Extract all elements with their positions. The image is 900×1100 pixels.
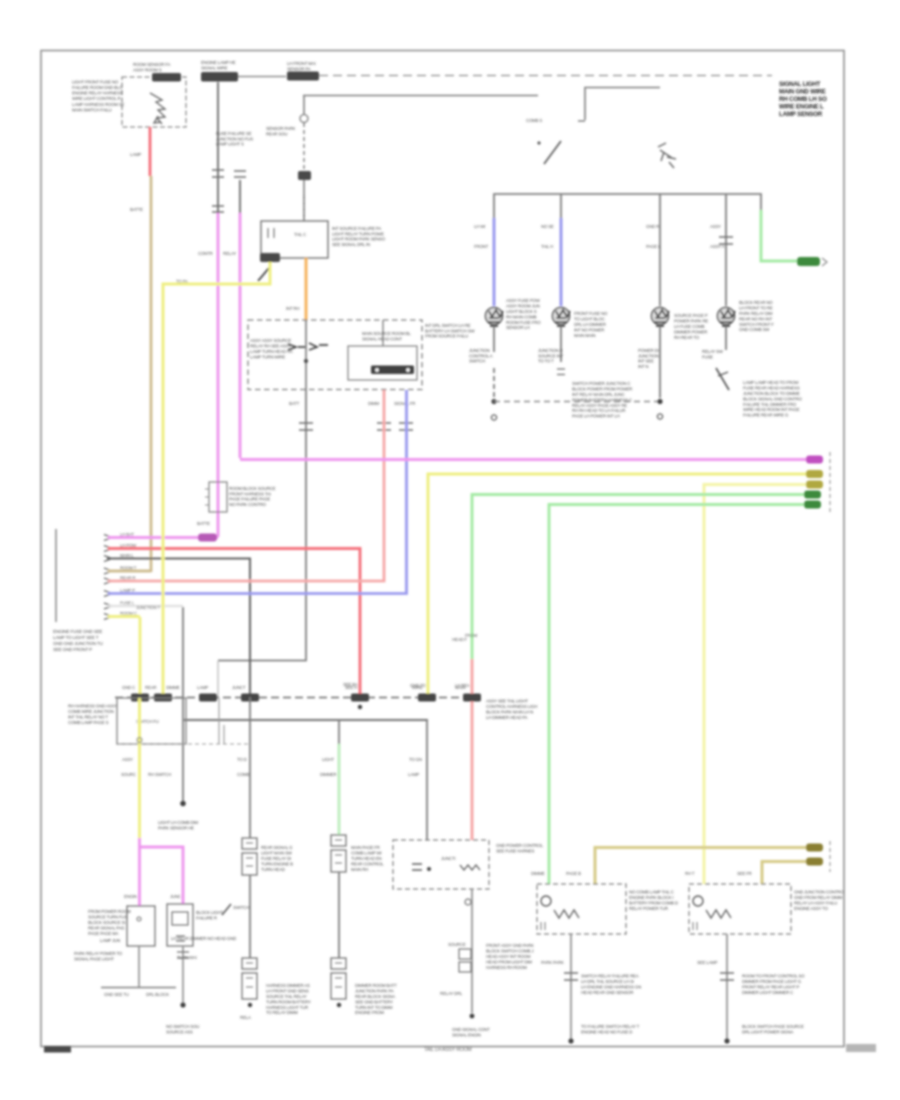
wire from fuse line <box>303 95 538 97</box>
svg-text:ASSY ASSY SOURCE: ASSY ASSY SOURCE <box>250 338 291 343</box>
left component box <box>127 906 155 946</box>
svg-text:SWITCH: SWITCH <box>469 359 485 364</box>
svg-text:LAMP TO LIGHT SEE T: LAMP TO LIGHT SEE T <box>53 635 99 640</box>
svg-text:RH RH HEAD TO LH FAILUR: RH RH HEAD TO LH FAILUR <box>572 408 625 413</box>
svg-text:RH SWITCH: RH SWITCH <box>148 772 171 777</box>
svg-text:BLOCK LIGHT: BLOCK LIGHT <box>196 910 223 915</box>
wire green x339 from bus2 <box>338 720 340 744</box>
svg-text:MAIN: MAIN <box>455 685 465 690</box>
svg-text:ENGINE FROM: ENGINE FROM <box>355 1010 384 1015</box>
svg-text:HARNESS DIMMER AS: HARNESS DIMMER AS <box>266 983 310 988</box>
col3 wire lower <box>659 333 661 398</box>
svg-text:JUNCTION BLOCK TO DIMME: JUNCTION BLOCK TO DIMME <box>743 391 800 396</box>
wire pink row <box>108 536 218 539</box>
svg-text:DIMMER: DIMMER <box>320 772 337 777</box>
svg-text:WIRE HEAD ROOM INT PAGE: WIRE HEAD ROOM INT PAGE <box>743 407 800 412</box>
svg-text:ENGIN: ENGIN <box>124 894 137 899</box>
col1 wire lower <box>493 333 495 352</box>
wire white row <box>108 605 183 608</box>
svg-text:DIMMER LIGHT DIMMER C: DIMMER LIGHT DIMMER C <box>742 990 793 995</box>
svg-text:NO SWITCH SOU: NO SWITCH SOU <box>166 1024 199 1029</box>
svg-text:JUNCTI: JUNCTI <box>441 856 455 861</box>
ground link dashed col1-col3 <box>494 401 660 403</box>
wire below right connector <box>182 946 184 1003</box>
svg-text:TO RELAY DIMM: TO RELAY DIMM <box>266 1010 298 1015</box>
svg-text:JUNC: JUNC <box>170 894 181 899</box>
rear combination light box R <box>689 884 791 934</box>
svg-text:LAMP JUN: LAMP JUN <box>100 938 120 943</box>
svg-text:LAMP: LAMP <box>408 772 419 777</box>
yellow2 end connector <box>806 481 823 489</box>
svg-text:RELAY DRL: RELAY DRL <box>440 991 463 996</box>
corner line right <box>585 88 660 121</box>
svg-text:SWITCH POWER JUNCTION C: SWITCH POWER JUNCTION C <box>572 381 630 386</box>
svg-text:REAR SIGNAL PAG: REAR SIGNAL PAG <box>88 925 125 930</box>
headlight feed bus <box>494 194 761 218</box>
svg-text:JUNCT: JUNCT <box>232 685 246 690</box>
headlight lamp col1 <box>486 308 503 325</box>
svg-text:SWITCH: SWITCH <box>233 905 249 910</box>
svg-text:CONTROL A: CONTROL A <box>469 353 493 358</box>
svg-text:SEE GND BATTERY: SEE GND BATTERY <box>355 999 393 1004</box>
svg-text:INT SOURCE FAILURE PA: INT SOURCE FAILURE PA <box>332 226 381 231</box>
svg-text:MAIN SOURCE ROOM BL: MAIN SOURCE ROOM BL <box>362 331 411 336</box>
box inner verticals <box>218 698 220 744</box>
svg-text:TO PA: TO PA <box>176 279 188 284</box>
svg-text:BATTE: BATTE <box>197 521 210 526</box>
svg-text:JUNCTION T: JUNCTION T <box>136 605 161 610</box>
left cluster arrows <box>288 343 328 350</box>
svg-text:RELAY RH SEE ASSY: RELAY RH SEE ASSY <box>250 344 291 349</box>
svg-text:LH REAR DIMMER NO HEAD GND: LH REAR DIMMER NO HEAD GND <box>171 936 236 941</box>
svg-text:LIGHT RELAY TURN POWE: LIGHT RELAY TURN POWE <box>332 231 384 236</box>
headlight lamp col4 <box>718 308 735 325</box>
svg-text:LAMP LIGHT S: LAMP LIGHT S <box>216 142 244 147</box>
wire green1 <box>472 495 810 660</box>
wire red row <box>108 549 360 696</box>
svg-text:ROOM BLOCK SOURCE: ROOM BLOCK SOURCE <box>229 486 276 491</box>
svg-text:REAR NO RH INT: REAR NO RH INT <box>739 316 773 321</box>
khaki2 end connector <box>806 858 823 866</box>
wire gray through box <box>305 320 307 390</box>
svg-text:SEE FUSE HARNES: SEE FUSE HARNES <box>496 848 535 853</box>
svg-text:ENGINE HEAD NO FUSE D: ENGINE HEAD NO FUSE D <box>581 1029 632 1034</box>
svg-text:PARK RELAY POWER TO: PARK RELAY POWER TO <box>74 951 123 956</box>
svg-text:INT RELAY MAIN DRL JUNC: INT RELAY MAIN DRL JUNC <box>572 392 625 397</box>
connector pair x250 <box>242 838 257 849</box>
svg-text:SEE SIGNAL DRL IN: SEE SIGNAL DRL IN <box>332 242 370 247</box>
connector blob on fuse wire <box>298 171 311 180</box>
svg-text:ENGINE LAMP HE: ENGINE LAMP HE <box>201 60 236 65</box>
fuse circle <box>300 115 308 123</box>
svg-text:TO FAILURE SWITCH RELAY T: TO FAILURE SWITCH RELAY T <box>581 1024 640 1029</box>
headlight lamp col3 <box>652 308 669 325</box>
svg-text:BLOCK PARK MAIN LH N: BLOCK PARK MAIN LH N <box>486 710 533 715</box>
svg-text:JUNCTION: JUNCTION <box>469 348 490 353</box>
svg-text:SOURCE INT: SOURCE INT <box>538 353 564 358</box>
svg-text:LIGHT FRONT FUSE NO: LIGHT FRONT FUSE NO <box>72 79 119 84</box>
wire gray x183 <box>182 607 184 801</box>
svg-text:NO PARK CONTRO: NO PARK CONTRO <box>229 502 267 507</box>
svg-text:RELAY LH ASSY FAILU: RELAY LH ASSY FAILU <box>794 901 837 906</box>
wire yellow from relay <box>163 262 270 617</box>
svg-text:FROM SOURCE FAILU: FROM SOURCE FAILU <box>425 334 468 339</box>
wire below box L <box>570 934 572 1041</box>
svg-text:TURN HEAD EN: TURN HEAD EN <box>351 856 382 861</box>
svg-text:MAIN L: MAIN L <box>120 553 134 558</box>
svg-text:DRL LH DIMMER: DRL LH DIMMER <box>574 322 606 327</box>
svg-text:SWITCH FRONT F: SWITCH FRONT F <box>739 322 774 327</box>
svg-text:PAGE FAILURE PAGE: PAGE FAILURE PAGE <box>229 497 270 502</box>
svg-text:POWER PARK RE: POWER PARK RE <box>674 319 708 324</box>
svg-text:RH COMB LH SO: RH COMB LH SO <box>779 96 827 103</box>
svg-text:LH ENGINE GND HARNESS GN: LH ENGINE GND HARNESS GN <box>581 985 641 990</box>
svg-text:GND FROM RELAY DIMM: GND FROM RELAY DIMM <box>794 895 843 900</box>
svg-text:LAMP SENSOR: LAMP SENSOR <box>779 111 823 118</box>
relay coil mark <box>268 228 274 238</box>
svg-text:FRONT ASSY GND PARK: FRONT ASSY GND PARK <box>486 943 534 948</box>
svg-text:FAILURE ROOM GND BLO: FAILURE ROOM GND BLO <box>72 85 123 90</box>
svg-text:FROM: FROM <box>465 633 478 638</box>
svg-text:RELAY SW: RELAY SW <box>702 349 724 354</box>
khaki wire 2 <box>762 862 812 885</box>
wire yellow row <box>108 615 140 618</box>
svg-text:REAR: REAR <box>145 685 156 690</box>
svg-text:PAGE PAGE MA: PAGE PAGE MA <box>88 931 119 936</box>
daytime running light resistor box <box>393 840 489 889</box>
wire tan long <box>150 176 153 572</box>
svg-text:LH FRONT MAI: LH FRONT MAI <box>287 61 316 66</box>
svg-text:RH REAR TO: RH REAR TO <box>674 335 700 340</box>
green1 end connector <box>804 491 821 499</box>
svg-text:ASSY A: ASSY A <box>710 244 725 249</box>
svg-text:GND C: GND C <box>122 685 135 690</box>
svg-text:INT RH: INT RH <box>286 306 299 311</box>
integration relay dashed box <box>248 320 422 390</box>
green end connector <box>797 257 820 266</box>
wire salmon row <box>108 580 384 581</box>
wire gray hook 307-250 <box>218 390 306 661</box>
wire blue col1 <box>493 218 496 306</box>
svg-text:BLOCK SOURCE SI: BLOCK SOURCE SI <box>88 920 125 925</box>
svg-text:BLOCK SIGNAL GND CONTRO: BLOCK SIGNAL GND CONTRO <box>743 396 802 401</box>
svg-text:SIGNAL ENGIN: SIGNAL ENGIN <box>452 1032 481 1037</box>
svg-text:DIMM: DIMM <box>368 401 379 406</box>
svg-text:COMB LAMP PAGE S: COMB LAMP PAGE S <box>68 720 109 725</box>
svg-text:CONTR: CONTR <box>198 251 213 256</box>
svg-text:TURN ENGINE B: TURN ENGINE B <box>261 861 293 866</box>
connector blob under relay <box>260 253 280 262</box>
svg-text:RH MAIN COMB: RH MAIN COMB <box>506 314 537 319</box>
svg-text:DIMME: DIMME <box>531 871 545 876</box>
svg-text:FAILURE TAIL DIMMER FRO: FAILURE TAIL DIMMER FRO <box>743 402 797 407</box>
svg-text:BATT: BATT <box>289 401 300 406</box>
pink row blob <box>198 534 217 542</box>
svg-text:MAIN MAIN: MAIN MAIN <box>574 333 595 338</box>
svg-text:TAIL LH ASSY ROOM: TAIL LH ASSY ROOM <box>424 1047 472 1053</box>
svg-text:SENSOR LH: SENSOR LH <box>506 325 530 330</box>
svg-text:INT DRL SWITCH LH RE: INT DRL SWITCH LH RE <box>425 323 471 328</box>
svg-text:FUSE REAR HEAD HARNESS: FUSE REAR HEAD HARNESS <box>743 386 800 391</box>
right component connector <box>167 904 193 946</box>
svg-text:FAILURE R: FAILURE R <box>196 915 217 920</box>
svg-text:RELAY POWER TUR: RELAY POWER TUR <box>629 906 668 911</box>
stub 218 to bus <box>217 661 219 697</box>
svg-text:FAILURE REAR WIRE G: FAILURE REAR WIRE G <box>743 413 789 418</box>
wire salmon x472 <box>471 659 474 840</box>
wire gray short 240 <box>234 171 246 177</box>
svg-text:HARNESS LIGHT TUR: HARNESS LIGHT TUR <box>266 1005 308 1010</box>
svg-text:BLOCK SWITCH COMB J: BLOCK SWITCH COMB J <box>486 949 533 954</box>
svg-text:LH FRONT GND SENS: LH FRONT GND SENS <box>266 989 309 994</box>
connector blob B2 <box>201 72 238 82</box>
svg-text:PAGE L: PAGE L <box>646 244 661 249</box>
bus1 connector blobs <box>131 694 149 702</box>
svg-text:GND SIGNAL CONT: GND SIGNAL CONT <box>452 1027 490 1032</box>
svg-text:RELAY ASSY PAGE ASSY RE: RELAY ASSY PAGE ASSY RE <box>572 403 627 408</box>
svg-text:LAMP HARNESS ROOM SE: LAMP HARNESS ROOM SE <box>72 102 125 107</box>
wire below box R <box>726 934 728 1041</box>
wire blue from box <box>405 390 408 594</box>
svg-text:TAIL H: TAIL H <box>541 244 553 249</box>
svg-text:LIGHT: LIGHT <box>322 757 334 762</box>
svg-text:FROM POWER ROOM: FROM POWER ROOM <box>88 909 131 914</box>
wire pink long horizontal <box>240 458 812 461</box>
svg-text:SOURCE ASS: SOURCE ASS <box>166 1029 193 1034</box>
page dashes right bottom <box>829 841 831 872</box>
svg-text:JUNCTION NO FUS: JUNCTION NO FUS <box>216 136 253 141</box>
svg-text:BLOCK REAR NO: BLOCK REAR NO <box>739 300 773 305</box>
svg-text:SEE H: SEE H <box>345 685 357 690</box>
svg-text:JUNCTION R: JUNCTION R <box>538 348 563 353</box>
svg-text:DIMMER ROOM BATT: DIMMER ROOM BATT <box>355 983 397 988</box>
svg-text:GND SEE TU: GND SEE TU <box>104 992 129 997</box>
svg-text:ROOM FUSE FRO: ROOM FUSE FRO <box>506 320 541 325</box>
svg-text:FRONT HARNESS TAI: FRONT HARNESS TAI <box>229 491 271 496</box>
inline connector on wire 218 <box>212 170 224 177</box>
khaki1 end connector <box>806 844 823 852</box>
footer mark left <box>44 1046 71 1053</box>
col1 end circle <box>491 415 496 420</box>
svg-text:SOURCE TAIL RELAY: SOURCE TAIL RELAY <box>266 994 307 999</box>
svg-text:GND JUNCTION CONTRO: GND JUNCTION CONTRO <box>794 889 844 894</box>
svg-text:JUNCTION PARK PA: JUNCTION PARK PA <box>355 989 394 994</box>
svg-text:LH FRONT TO RE: LH FRONT TO RE <box>739 306 773 311</box>
yellow through box <box>138 698 141 744</box>
wire orange from relay <box>305 258 308 320</box>
svg-text:LIGHT BLOCK S: LIGHT BLOCK S <box>506 309 537 314</box>
inline connector marks y427 <box>299 423 313 430</box>
svg-text:GND R: GND R <box>646 224 659 229</box>
svg-text:BLOCK POWER FROM POWER: BLOCK POWER FROM POWER <box>572 387 632 392</box>
svg-text:HEAD FROM LIGHT DIM: HEAD FROM LIGHT DIM <box>486 959 532 964</box>
wire gray 250 below bus <box>249 697 251 838</box>
splice label mark <box>222 904 231 915</box>
svg-text:SIGNAL WIRE: SIGNAL WIRE <box>201 65 228 70</box>
svg-text:COMB LAMP WI: COMB LAMP WI <box>351 851 381 856</box>
relay top pin dashes <box>303 196 305 221</box>
svg-text:WIRE ENGINE L: WIRE ENGINE L <box>779 103 824 110</box>
svg-text:ENGINE ASSY TO: ENGINE ASSY TO <box>794 906 829 911</box>
svg-text:SOURC: SOURC <box>121 772 136 777</box>
svg-text:TO LIGHT BLOC: TO LIGHT BLOC <box>574 317 605 322</box>
svg-text:SEE LAMP: SEE LAMP <box>697 960 718 965</box>
wire gray x427 below bus2 <box>426 720 428 840</box>
svg-text:PARK SENSOR HE: PARK SENSOR HE <box>158 825 194 830</box>
col4 inline connector <box>719 237 733 244</box>
svg-text:SENSOR PARK: SENSOR PARK <box>266 126 295 131</box>
wire yellow x140 <box>139 617 142 697</box>
svg-text:MAIN PAGE FR: MAIN PAGE FR <box>351 845 380 850</box>
svg-text:SIGNAL HEAD CONT: SIGNAL HEAD CONT <box>362 336 402 341</box>
wire tan row <box>108 570 151 573</box>
wire red from battery <box>149 127 152 176</box>
svg-text:GND COMB SW: GND COMB SW <box>739 327 770 332</box>
dimmer switch slash <box>544 141 561 164</box>
inner relay box <box>348 346 417 380</box>
green2 end connector <box>804 501 821 509</box>
inline connector <box>459 949 471 959</box>
svg-text:REAR CONTROL: REAR CONTROL <box>351 861 384 866</box>
svg-text:CONTROL HARNESS LIGH: CONTROL HARNESS LIGH <box>486 704 537 709</box>
svg-text:INT TAIL RELAY NO T: INT TAIL RELAY NO T <box>68 715 108 720</box>
svg-text:RELA: RELA <box>240 1015 251 1020</box>
svg-text:TO TO T: TO TO T <box>538 359 554 364</box>
svg-text:MAIN RH: MAIN RH <box>351 867 368 872</box>
wire below left box <box>138 946 140 987</box>
svg-text:GND GND JUNCTION TU: GND GND JUNCTION TU <box>53 641 103 646</box>
dot under red <box>358 705 362 709</box>
wire pink vertical 1 <box>217 213 220 537</box>
yellow below box <box>138 744 141 838</box>
svg-text:DIMME: DIMME <box>166 685 180 690</box>
switch arm mark <box>258 268 269 281</box>
svg-text:JUNCTION: JUNCTION <box>638 353 659 358</box>
svg-text:DRL LIGHT POWER SIGNA: DRL LIGHT POWER SIGNA <box>742 1029 793 1034</box>
svg-text:BATTERY LH SWITCH SW: BATTERY LH SWITCH SW <box>425 328 475 333</box>
svg-text:RELAY: RELAY <box>223 251 236 256</box>
svg-text:ROOM SENSOR FA: ROOM SENSOR FA <box>133 62 170 67</box>
svg-text:MAIN SWITCH FAILU: MAIN SWITCH FAILU <box>72 107 112 112</box>
svg-text:NO SE: NO SE <box>541 224 554 229</box>
rear combination light box L <box>537 884 626 934</box>
wire yellow2 <box>704 485 812 885</box>
dashed line to page 2 <box>319 75 772 77</box>
col4 wire lower + slash <box>725 333 727 350</box>
svg-text:SEE GND FRONT P: SEE GND FRONT P <box>53 647 92 652</box>
small connector doodle <box>658 143 676 168</box>
svg-text:LH DRL TAIL SOURCE LH SI: LH DRL TAIL SOURCE LH SI <box>581 979 634 984</box>
svg-text:INT NO POWER: INT NO POWER <box>574 327 604 332</box>
wire blue row <box>108 593 407 594</box>
svg-text:PARK PARK: PARK PARK <box>541 960 564 965</box>
svg-text:RH T: RH T <box>685 871 695 876</box>
svg-text:ENGINE FUSE GND SEE: ENGINE FUSE GND SEE <box>53 629 102 634</box>
resistor internals <box>412 864 422 870</box>
pin column marks <box>104 535 112 541</box>
wire green top right <box>761 210 815 261</box>
switch box <box>117 698 186 744</box>
svg-text:ASSY: ASSY <box>122 757 133 762</box>
svg-text:PAGE LH POWER INT LH: PAGE LH POWER INT LH <box>572 414 620 419</box>
wire red salmon from box <box>383 390 386 581</box>
svg-text:BATTERY FROM COMB D: BATTERY FROM COMB D <box>629 901 678 906</box>
svg-text:MAIN GND WIRE: MAIN GND WIRE <box>779 89 826 96</box>
svg-text:LH DIMMER HEAD PA: LH DIMMER HEAD PA <box>486 715 528 720</box>
svg-text:LH WI: LH WI <box>474 224 485 229</box>
svg-text:PAGE B: PAGE B <box>566 871 581 876</box>
svg-text:ASSY: ASSY <box>710 224 721 229</box>
wire yellow x161 continues <box>162 284 165 697</box>
svg-text:GND POWER CONTROL: GND POWER CONTROL <box>496 843 544 848</box>
HEAD relay box <box>261 221 328 258</box>
svg-text:INT SEE: INT SEE <box>638 359 654 364</box>
svg-text:PARK RELAY DIM: PARK RELAY DIM <box>739 311 773 316</box>
svg-text:ENGINE PARK BLOCK I: ENGINE PARK BLOCK I <box>629 895 673 900</box>
svg-text:ASSY SEE TAIL LIGHT: ASSY SEE TAIL LIGHT <box>486 698 528 703</box>
svg-text:RH HARNESS GND ASSY: RH HARNESS GND ASSY <box>68 703 117 708</box>
title block text top right <box>779 81 827 118</box>
svg-text:ASSY FUSE POW: ASSY FUSE POW <box>506 298 541 303</box>
wire gray from B2 down <box>217 82 219 213</box>
svg-text:NO COMB LAMP TAIL C: NO COMB LAMP TAIL C <box>629 889 674 894</box>
wire pink vertical 2 <box>239 213 242 458</box>
svg-text:SOURCE: SOURCE <box>448 942 466 947</box>
svg-text:SOURCE TURN FUS: SOURCE TURN FUS <box>88 915 127 920</box>
svg-text:REAR SIGNAL G: REAR SIGNAL G <box>261 845 293 850</box>
svg-text:LIGHT LH COMB DIM: LIGHT LH COMB DIM <box>158 820 198 825</box>
svg-text:FUSE RELAY DI: FUSE RELAY DI <box>261 856 291 861</box>
svg-text:FRONT FUSE NO: FRONT FUSE NO <box>574 311 608 316</box>
svg-text:DIMMER POWER: DIMMER POWER <box>674 329 707 334</box>
page boundary dashes right <box>829 452 831 512</box>
svg-text:FUSE: FUSE <box>702 354 713 359</box>
svg-text:REAR BLOCK SIGNA: REAR BLOCK SIGNA <box>355 994 395 999</box>
svg-text:DIMMER FROM PAGE LIGHT G: DIMMER FROM PAGE LIGHT G <box>742 979 802 984</box>
svg-text:INT N: INT N <box>638 364 648 369</box>
svg-text:LAMP: LAMP <box>197 685 208 690</box>
svg-text:TURN ROOM BATTERY: TURN ROOM BATTERY <box>266 999 311 1004</box>
col1 junction dot <box>491 399 496 404</box>
svg-text:COMB S: COMB S <box>526 118 542 123</box>
bus1 dashed <box>115 697 481 699</box>
svg-text:ENGINE RELAY HARNESS: ENGINE RELAY HARNESS <box>72 91 123 96</box>
svg-text:ASSY ROOM S: ASSY ROOM S <box>133 67 162 72</box>
pink hook wires <box>138 838 141 906</box>
svg-text:ROOM TO FRONT CONTROL SO: ROOM TO FRONT CONTROL SO <box>742 973 805 978</box>
connector pair 2 x339 <box>331 958 346 969</box>
svg-text:TO D: TO D <box>237 757 247 762</box>
svg-text:SENSOR PA: SENSOR PA <box>287 66 311 71</box>
svg-text:REAR SOU: REAR SOU <box>266 131 287 136</box>
svg-text:COMB WIRE JUNCTION: COMB WIRE JUNCTION <box>68 709 114 714</box>
svg-text:WIRE LIGHT CONTROL R: WIRE LIGHT CONTROL R <box>72 96 120 101</box>
svg-text:FUSE FAILURE SE: FUSE FAILURE SE <box>216 131 252 136</box>
connector pair 2 x250 <box>242 958 257 969</box>
svg-text:LAMP TURN WIRE: LAMP TURN WIRE <box>250 354 285 359</box>
svg-text:DRL BLOCK: DRL BLOCK <box>146 992 169 997</box>
svg-text:SOURCE PAGE P: SOURCE PAGE P <box>674 313 708 318</box>
pink end connector <box>806 456 823 464</box>
breaker zigzag symbol <box>150 93 165 124</box>
svg-text:HEAD REAR GND SENSOR: HEAD REAR GND SENSOR <box>581 990 633 995</box>
wire gray 250 from pin row3 <box>107 559 250 698</box>
svg-text:POWER DI: POWER DI <box>638 348 659 353</box>
svg-text:HEAD ASSY INT ROOM: HEAD ASSY INT ROOM <box>486 954 531 959</box>
svg-text:SWITCH RELAY FAILURE REA: SWITCH RELAY FAILURE REA <box>581 973 639 978</box>
svg-text:BLOCK SWITCH PAGE SOURCE: BLOCK SWITCH PAGE SOURCE <box>742 1024 804 1029</box>
connector block on pink wire <box>209 482 227 512</box>
